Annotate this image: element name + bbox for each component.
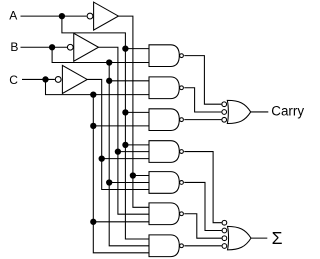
junction C input tap	[42, 76, 48, 82]
svg-text:B: B	[10, 40, 18, 54]
junction A to NAND1.in1	[122, 45, 128, 51]
wire B tap to NAND5 input 2	[109, 182, 149, 184]
junction A input tap	[59, 13, 65, 19]
wire C tap to NAND3 input 2	[93, 125, 149, 127]
junction B' to NAND4.in2	[115, 148, 121, 154]
NAND gate 2	[149, 77, 183, 99]
wire C' from inverter U3 down bus	[87, 79, 149, 189]
wire NAND1 output to Carry gate input 1	[184, 56, 221, 105]
NAND gate 4	[149, 141, 183, 163]
wire NAND5 output to Sum gate input 2	[184, 182, 221, 230]
wire A tap to NAND4 input 1	[125, 144, 149, 146]
wire B' tap to NAND4 input 2	[118, 151, 149, 153]
wire NAND7 output to Sum gate input 4	[184, 245, 221, 247]
junction A to NAND4.in1	[122, 142, 128, 148]
wire NAND6 output to Sum gate input 3	[184, 214, 221, 238]
wire B' from inverter U2 down bus	[99, 47, 150, 214]
inverter U3 (C)	[55, 65, 87, 93]
NAND gate 3	[149, 109, 183, 131]
wire B input	[21, 46, 68, 48]
wire Sum gate output	[251, 237, 267, 239]
NAND gate 1	[149, 45, 183, 67]
wire A input	[21, 15, 87, 17]
wire B tap down to bus	[52, 47, 149, 62]
junction C' to NAND4.in3	[99, 155, 105, 161]
inverter U2 (B)	[67, 33, 98, 61]
wire Carry gate output	[251, 111, 269, 113]
wire NAND2 output to Carry gate input 2	[184, 88, 221, 112]
wire C input	[22, 78, 55, 80]
Sum OR gate (negative-input)	[222, 220, 251, 250]
junction C to NAND6.in3	[90, 219, 96, 225]
wire C bus vertical	[93, 95, 149, 253]
wire A tap down to bus	[62, 16, 149, 239]
junction B to NAND2.in1	[106, 78, 112, 84]
junction B to NAND1.in2 row	[106, 59, 112, 65]
svg-text:C: C	[9, 73, 18, 87]
junction C to NAND3.in2	[90, 123, 96, 129]
wire C' tap to NAND4 input 3	[102, 158, 150, 160]
wire A tap to NAND3 input 1	[125, 111, 149, 113]
wire C tap down to bus	[46, 79, 150, 94]
Carry OR gate (negative-input)	[222, 100, 251, 123]
svg-text:Σ: Σ	[272, 228, 283, 248]
NAND gate 6	[149, 203, 183, 225]
wire B tap to NAND2 input 1	[109, 80, 149, 82]
wire NAND3 output to Carry gate input 3	[184, 119, 221, 121]
NAND gate 5	[149, 172, 183, 194]
junction B input tap	[49, 44, 55, 50]
junction A' to NAND5.in1	[130, 172, 136, 178]
wire A' tap to NAND5 input 1	[133, 175, 150, 177]
svg-text:Carry: Carry	[271, 103, 304, 118]
wire A tap to NAND1 input 1	[125, 48, 149, 50]
junction A to NAND3.in1	[122, 109, 128, 115]
wire C tap to NAND6 input 3	[93, 221, 149, 223]
NAND gate 7	[149, 235, 183, 257]
junction C to NAND2.in2 row	[90, 91, 96, 97]
svg-text:A: A	[9, 9, 17, 23]
junction B to NAND5.in2	[106, 179, 112, 185]
wire A' from inverter U1 down bus	[118, 16, 149, 207]
inverter U1 (A)	[87, 2, 118, 30]
wire NAND4 output to Sum gate input 1	[184, 152, 221, 223]
wire B bus vertical	[109, 63, 149, 246]
